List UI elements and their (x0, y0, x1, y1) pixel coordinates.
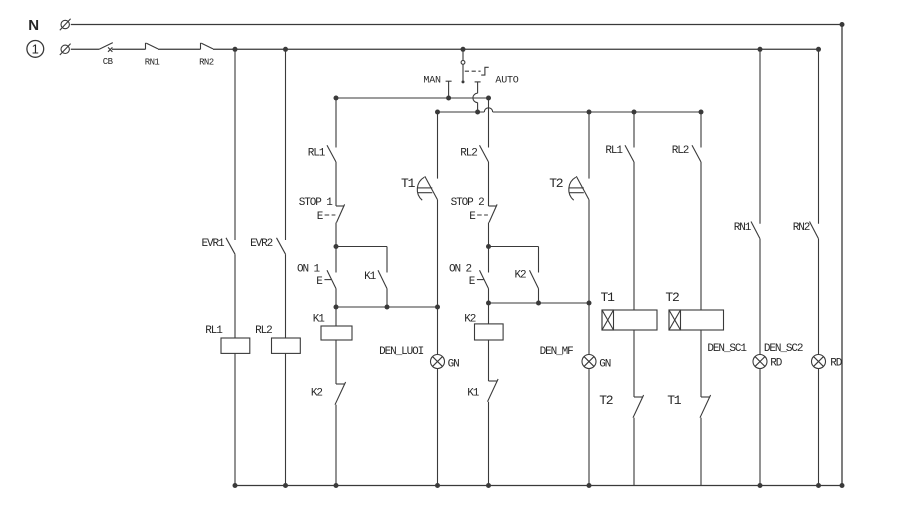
svg-text:T2: T2 (599, 393, 613, 408)
svg-text:T2: T2 (549, 176, 563, 191)
svg-text:E: E (469, 276, 476, 288)
svg-text:STOP 2: STOP 2 (451, 197, 485, 209)
svg-text:K2: K2 (464, 314, 476, 326)
svg-text:RL1: RL1 (205, 325, 223, 337)
svg-text:DEN_SC1: DEN_SC1 (707, 343, 747, 355)
svg-text:AUTO: AUTO (495, 76, 518, 87)
svg-text:K1: K1 (313, 314, 326, 326)
svg-text:RD: RD (830, 358, 843, 370)
svg-text:DEN_MF: DEN_MF (540, 346, 574, 358)
svg-text:GN: GN (448, 359, 460, 371)
svg-text:CB: CB (103, 57, 114, 67)
svg-text:RN2: RN2 (199, 58, 214, 68)
svg-text:E: E (469, 211, 476, 223)
svg-text:1: 1 (32, 42, 39, 57)
svg-text:N: N (28, 17, 39, 34)
svg-text:T1: T1 (601, 290, 616, 305)
svg-text:RL1: RL1 (308, 148, 326, 160)
svg-text:RL1: RL1 (605, 145, 623, 157)
svg-text:STOP 1: STOP 1 (299, 197, 334, 209)
svg-text:T2: T2 (665, 290, 679, 305)
svg-text:K1: K1 (364, 271, 377, 283)
svg-text:DEN_LUOI: DEN_LUOI (379, 346, 424, 358)
svg-text:MAN: MAN (423, 76, 441, 87)
svg-text:ON 1: ON 1 (297, 263, 321, 275)
svg-text:RL2: RL2 (672, 145, 689, 157)
svg-text:RN1: RN1 (734, 222, 752, 234)
svg-text:RL2: RL2 (255, 325, 272, 337)
svg-text:RN1: RN1 (145, 58, 160, 68)
svg-text:T1: T1 (667, 393, 682, 408)
svg-text:RL2: RL2 (460, 148, 477, 160)
svg-text:K2: K2 (514, 270, 526, 282)
svg-text:RN2: RN2 (793, 222, 810, 234)
svg-text:DEN_SC2: DEN_SC2 (764, 343, 803, 355)
svg-text:E: E (316, 276, 323, 288)
svg-text:K1: K1 (467, 388, 480, 400)
svg-text:T1: T1 (401, 176, 416, 191)
svg-text:EVR1: EVR1 (201, 238, 225, 250)
svg-text:K2: K2 (311, 388, 323, 400)
svg-text:E: E (317, 211, 324, 223)
svg-text:RD: RD (770, 358, 783, 370)
svg-text:EVR2: EVR2 (250, 238, 273, 250)
svg-text:GN: GN (599, 359, 611, 371)
svg-text:ON 2: ON 2 (449, 263, 472, 275)
